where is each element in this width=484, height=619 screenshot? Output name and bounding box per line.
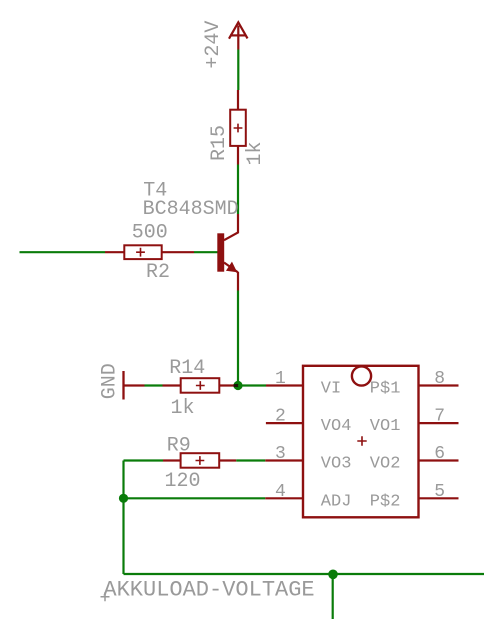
svg-text:8: 8 (434, 369, 445, 389)
svg-text:2: 2 (275, 407, 286, 427)
svg-text:4: 4 (275, 482, 286, 502)
svg-text:AKKULOAD-VOLTAGE: AKKULOAD-VOLTAGE (103, 577, 314, 602)
ground GND symbol (124, 371, 145, 400)
svg-text:VI: VI (321, 380, 341, 399)
svg-text:1k: 1k (244, 141, 267, 165)
svg-text:VO4: VO4 (321, 417, 352, 436)
wire to R9 from left rail (124, 459, 164, 461)
pin-1 marker circle (352, 366, 371, 385)
transistor T4 (217, 214, 238, 291)
resistor R9 (163, 453, 236, 468)
pin 5 (419, 497, 459, 499)
svg-text:P$1: P$1 (370, 380, 401, 399)
pin numbers (275, 369, 445, 502)
resistor R15 (230, 90, 246, 165)
pin 2 (266, 422, 303, 424)
svg-text:6: 6 (434, 444, 445, 464)
svg-text:1: 1 (275, 369, 286, 389)
svg-text:P$2: P$2 (370, 492, 401, 511)
svg-text:GND: GND (99, 363, 122, 399)
pin 4 (265, 497, 303, 499)
left rail vertical wire (122, 461, 124, 575)
svg-text:500: 500 (132, 221, 168, 244)
IC pins left (265, 386, 458, 499)
wire node to IC pin 1 (238, 384, 266, 386)
junction overlap dark wedge (234, 384, 239, 387)
origin cross U1 (357, 436, 366, 445)
svg-text:5: 5 (434, 482, 445, 502)
svg-text:ADJ: ADJ (321, 492, 352, 511)
pin 1 (266, 384, 303, 386)
svg-text:VO1: VO1 (370, 417, 401, 436)
wire emitter to node (237, 291, 239, 386)
op-amp/regulator U1 box (303, 366, 419, 518)
svg-text:1k: 1k (171, 397, 195, 420)
svg-text:BC848SMD: BC848SMD (143, 198, 239, 221)
junction node bottom (328, 570, 338, 580)
junction node at pin 1 (233, 381, 242, 390)
svg-text:3: 3 (275, 444, 286, 464)
junction node on left rail (119, 494, 128, 503)
wire left rail to IC pin 4 (124, 497, 266, 499)
wire R15 to T4 collector (237, 165, 239, 215)
wire R2 to base (194, 251, 218, 253)
svg-text:R2: R2 (146, 261, 170, 284)
resistor R2 (105, 245, 194, 259)
svg-text:VO3: VO3 (321, 455, 352, 474)
svg-text:7: 7 (434, 407, 445, 427)
resistor R14 (163, 378, 237, 393)
pin names (321, 380, 401, 512)
wire R9 to IC pin 3 (236, 459, 265, 461)
svg-text:R15: R15 (208, 125, 231, 161)
svg-text:120: 120 (165, 470, 201, 493)
pin 6 (419, 459, 459, 461)
net label origin cross (101, 592, 110, 601)
wire left input to R2 (20, 251, 106, 253)
supply +24V symbol (229, 22, 248, 49)
wire GND to R14 (145, 384, 163, 386)
pin 3 (265, 459, 303, 461)
bottom net wire horizontal (124, 573, 484, 575)
pin 8 (419, 384, 459, 386)
wire junction down (332, 574, 334, 619)
svg-text:VO2: VO2 (370, 455, 401, 474)
wire net from +24V to R15 (237, 50, 239, 91)
svg-text:R14: R14 (169, 357, 205, 380)
pin 7 (419, 422, 459, 424)
svg-text:+24V: +24V (202, 21, 225, 69)
